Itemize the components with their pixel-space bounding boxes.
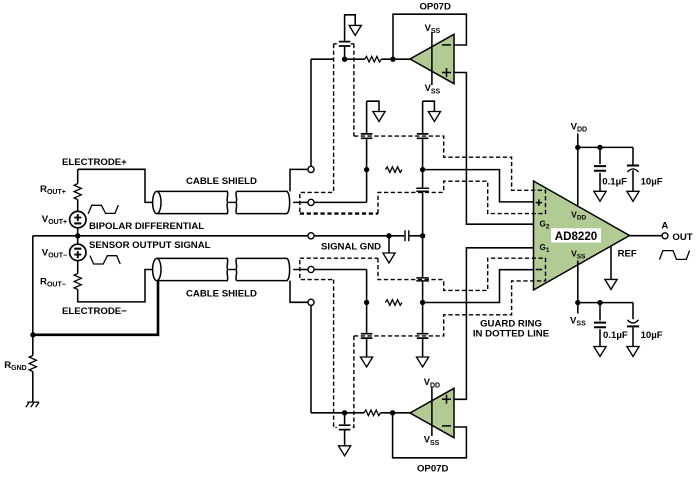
svg-text:SENSOR OUTPUT SIGNAL: SENSOR OUTPUT SIGNAL bbox=[89, 240, 211, 251]
svg-text:OP07D: OP07D bbox=[419, 2, 451, 13]
svg-text:A: A bbox=[661, 221, 668, 232]
svg-text:AD8220: AD8220 bbox=[555, 230, 598, 243]
svg-text:CABLE SHIELD: CABLE SHIELD bbox=[186, 176, 257, 187]
svg-text:OP07D: OP07D bbox=[417, 464, 449, 475]
svg-text:CABLE SHIELD: CABLE SHIELD bbox=[186, 289, 257, 300]
svg-text:SIGNAL GND: SIGNAL GND bbox=[321, 241, 381, 252]
svg-text:ELECTRODE+: ELECTRODE+ bbox=[62, 157, 127, 168]
svg-text:10µF: 10µF bbox=[641, 330, 663, 341]
svg-text:10µF: 10µF bbox=[641, 176, 663, 187]
svg-text:OUT: OUT bbox=[672, 232, 692, 243]
svg-text:ELECTRODE−: ELECTRODE− bbox=[62, 306, 127, 317]
svg-text:IN DOTTED LINE: IN DOTTED LINE bbox=[473, 329, 550, 340]
svg-text:REF: REF bbox=[618, 249, 637, 260]
svg-text:0.1µF: 0.1µF bbox=[602, 176, 627, 187]
svg-text:0.1µF: 0.1µF bbox=[603, 330, 628, 341]
svg-text:BIPOLAR DIFFERENTIAL: BIPOLAR DIFFERENTIAL bbox=[89, 221, 204, 232]
